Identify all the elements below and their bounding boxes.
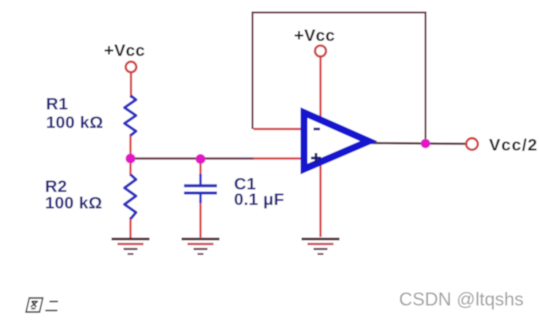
svg-text:R1: R1 <box>46 95 68 114</box>
svg-text:0.1 μF: 0.1 μF <box>234 190 284 209</box>
svg-text:+Vcc: +Vcc <box>104 41 145 60</box>
svg-text:+Vcc: +Vcc <box>294 26 335 45</box>
svg-text:Vcc/2: Vcc/2 <box>489 136 538 155</box>
svg-text:100 kΩ: 100 kΩ <box>46 113 103 132</box>
svg-text:100 kΩ: 100 kΩ <box>45 194 102 213</box>
svg-text:CSDN @ltqshs: CSDN @ltqshs <box>399 289 524 310</box>
